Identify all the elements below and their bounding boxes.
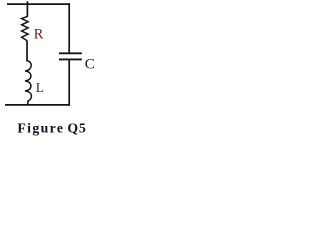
svg-text:C: C [85,56,95,73]
wire left branch upper lead [26,4,28,17]
wire top [7,3,70,5]
svg-text:R: R [34,26,44,42]
wire between resistor and inductor [26,40,28,61]
wire right side lower [68,60,70,106]
wire right side upper [68,3,70,52]
svg-text:FigureQ5: FigureQ5 [17,121,86,136]
inductor L [25,61,31,105]
node junction tick (top of RL branch) [26,1,28,5]
capacitor C [59,53,82,59]
resistor R [22,17,29,41]
svg-text:L: L [36,80,44,95]
wire bottom [5,104,70,106]
